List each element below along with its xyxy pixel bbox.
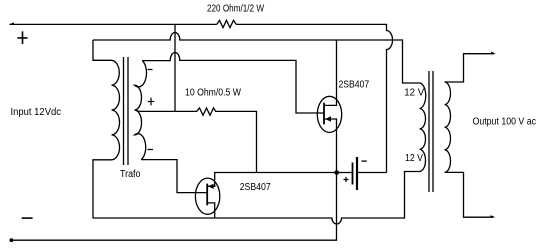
svg-text:220 Ohm/1/2 W: 220 Ohm/1/2 W: [207, 3, 264, 14]
svg-text:2SB407: 2SB407: [339, 79, 370, 90]
svg-text:Trafo: Trafo: [120, 169, 141, 180]
svg-text:12 V: 12 V: [404, 88, 424, 99]
svg-text:2SB407: 2SB407: [240, 182, 271, 193]
svg-text:Input 12Vdc: Input 12Vdc: [11, 107, 62, 118]
svg-text:12 V: 12 V: [405, 153, 423, 164]
svg-text:Output 100 V ac: Output 100 V ac: [473, 116, 537, 127]
svg-text:10 Ohm/0.5 W: 10 Ohm/0.5 W: [185, 87, 241, 98]
